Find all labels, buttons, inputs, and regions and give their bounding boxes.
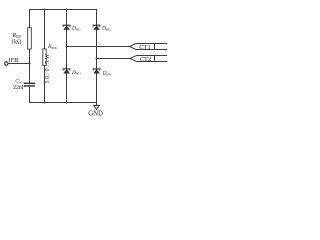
node junction bottom R806	[44, 102, 46, 104]
svg-text:CT1: CT1	[139, 44, 151, 51]
svg-text:C811: C811	[15, 79, 24, 85]
svg-text:IFB: IFB	[8, 57, 19, 64]
svg-text:GND: GND	[88, 111, 103, 118]
port flag CT2	[130, 56, 167, 62]
svg-text:D804: D804	[102, 71, 112, 77]
wire CT1	[67, 46, 130, 48]
diode D804 label	[102, 71, 112, 77]
capacitor C811 plates	[25, 83, 35, 86]
wire D2-D4 branch	[96, 10, 98, 103]
wire top bus	[30, 9, 97, 11]
svg-text:CT2: CT2	[140, 56, 152, 63]
wire left vertical lower	[29, 86, 31, 103]
port flag CT2 text	[140, 56, 152, 63]
diode D803	[63, 69, 70, 73]
svg-text:R807: R807	[11, 33, 21, 39]
diode D802	[93, 25, 100, 29]
svg-text:1kΩ: 1kΩ	[11, 39, 22, 45]
IFB terminal circle	[5, 62, 8, 65]
wire bottom bus	[30, 102, 97, 104]
svg-text:R806: R806	[47, 44, 57, 50]
node junction CT1	[66, 46, 68, 48]
svg-text:D801: D801	[71, 26, 81, 32]
ground stub	[96, 103, 98, 106]
node junction bottom D3	[66, 102, 68, 104]
diode D801	[63, 25, 70, 29]
resistor R806 value 50/0.5W vertical	[45, 52, 51, 83]
ground label GND	[88, 111, 103, 118]
svg-text:22nF: 22nF	[13, 85, 26, 91]
ground symbol	[94, 106, 100, 110]
svg-text:D803: D803	[71, 70, 81, 76]
wire left vertical upper	[29, 10, 31, 84]
svg-text:D802: D802	[101, 26, 111, 32]
wire CT2	[97, 58, 131, 60]
capacitor C811 label	[15, 79, 24, 85]
resistor R807 body	[28, 28, 32, 49]
port flag CT1 text	[139, 44, 151, 51]
resistor R807 label	[11, 33, 21, 39]
node junction top R806	[44, 9, 46, 11]
diode D803 label	[71, 70, 81, 76]
port flag CT1	[130, 44, 168, 50]
wire D1-D3 branch	[66, 10, 68, 103]
diode D801 label	[71, 26, 81, 32]
node junction IFB	[29, 63, 31, 65]
IFB label	[8, 57, 19, 64]
wire R806 branch	[44, 10, 46, 103]
diode D804	[93, 69, 100, 73]
diode D802 label	[101, 26, 111, 32]
resistor R806 label	[47, 44, 57, 50]
capacitor C811 value 22nF	[13, 85, 26, 91]
node junction top D1	[66, 9, 68, 11]
svg-text:50/0.5W: 50/0.5W	[45, 52, 51, 83]
wire IFB lead	[8, 63, 30, 65]
resistor R807 value 1kΩ	[11, 39, 22, 45]
node junction CT2	[96, 58, 98, 60]
resistor R806 body	[43, 49, 46, 66]
